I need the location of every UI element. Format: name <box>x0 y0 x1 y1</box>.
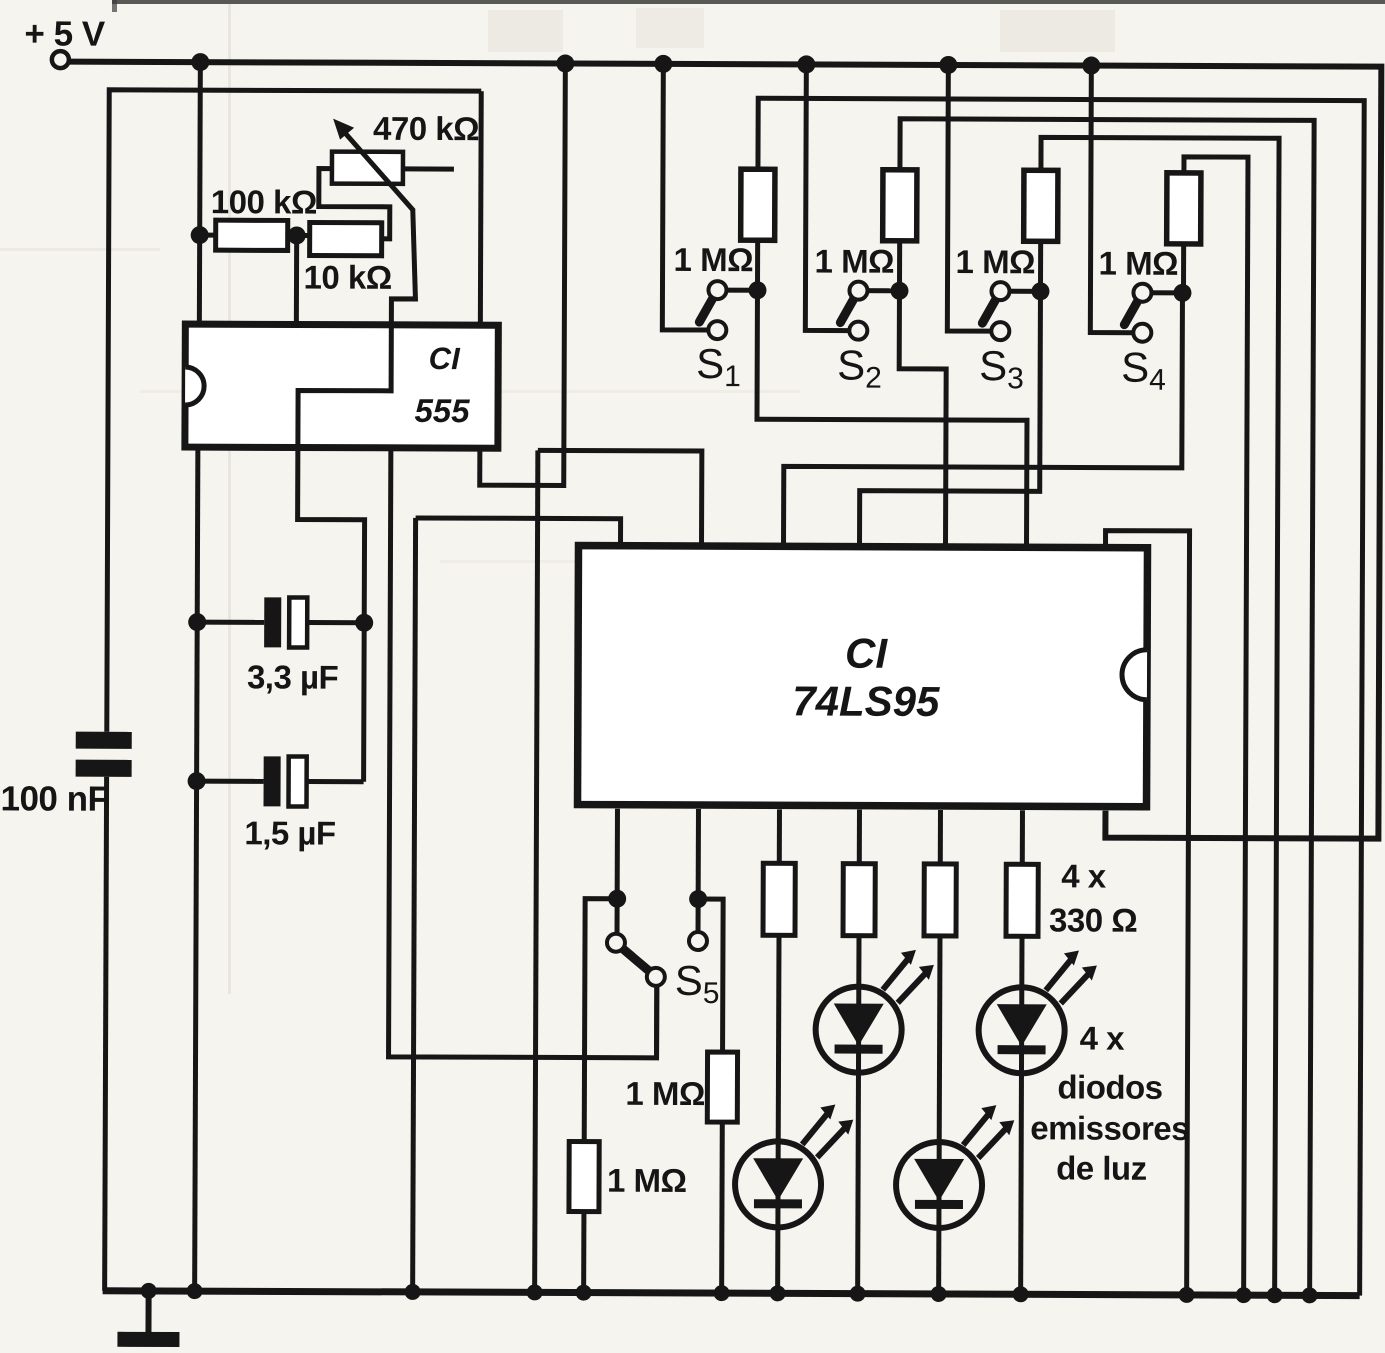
node top rail / S2 feed <box>797 55 815 73</box>
svg-text:555: 555 <box>414 392 470 429</box>
node rail U2 gnd step <box>1179 1287 1195 1303</box>
svg-text:4 x: 4 x <box>1080 1019 1126 1056</box>
svg-text:emissores: emissores <box>1030 1109 1189 1147</box>
switch S3 bottom contact <box>991 322 1009 340</box>
wire x537 riser down to ground rail <box>535 450 538 1292</box>
svg-text:1 MΩ: 1 MΩ <box>1099 245 1179 282</box>
node rail ground stub <box>141 1283 157 1299</box>
resistor R1M-4 (S4) <box>1167 173 1201 244</box>
wire S4 contact to node <box>1142 290 1182 295</box>
wire R1M left bottom lead to rail <box>581 1212 586 1293</box>
wire R100k left lead <box>200 233 217 238</box>
terminal +5V <box>52 51 69 68</box>
wire U2 pin down to S5 right contact <box>695 809 701 941</box>
wire S1 node to U2 input A <box>756 290 1027 547</box>
wire H1 from x537 riser to U2 top pin 2 <box>538 450 702 546</box>
svg-text:100 kΩ: 100 kΩ <box>211 183 317 220</box>
switch S5 moving contact <box>647 968 665 986</box>
capacitor C 100nF plate 2 <box>76 760 132 777</box>
wire C 3,3uF left lead <box>197 620 264 625</box>
svg-text:1 MΩ: 1 MΩ <box>815 242 895 279</box>
switch S2 top contact <box>849 282 867 300</box>
potentiometer P 470k wiper diagonal <box>342 130 414 211</box>
node rail R1M left <box>576 1285 592 1301</box>
boxes <box>184 324 1149 807</box>
switch S4 top contact <box>1133 284 1151 302</box>
node rail LED3 <box>931 1286 947 1302</box>
resistor R330-2 <box>843 864 875 936</box>
node rail line B <box>1302 1287 1318 1303</box>
node R100k/R10k junction <box>288 226 306 244</box>
node rail LED1 <box>770 1285 786 1301</box>
wire S5 left node bracket to R 1M left <box>584 899 617 1142</box>
node S4 switch/resistor <box>1173 284 1191 302</box>
wire S5 moving contact lead <box>654 977 659 1058</box>
svg-text:4 x: 4 x <box>1061 857 1107 894</box>
node S3 switch/resistor <box>1031 282 1049 300</box>
resistor R 100k <box>216 220 288 250</box>
wire R1M-1 bottom lead <box>755 240 760 290</box>
node top rail / 555 VCC <box>556 54 574 72</box>
node rail line C <box>1267 1287 1283 1303</box>
resistor R1M-5 (S5 left) <box>569 1142 599 1212</box>
resistor R330-4 <box>1006 864 1038 936</box>
wire pot wiper lower run into 555 <box>391 210 415 322</box>
switch S3 lever <box>982 298 996 323</box>
wire R1M-1 feedback line A to rail right corner <box>754 98 1365 1295</box>
wire ground-rail left riser (pin1 side of 555) with top jog <box>107 90 481 733</box>
wire ground bottom rail <box>103 1291 1360 1296</box>
svg-text:+ 5 V: + 5 V <box>24 14 106 53</box>
wire S2 node to U2 input B <box>898 291 946 547</box>
wire internal 555 route pin6-pin2 <box>298 327 391 444</box>
wire U2 output QD column through LED4 <box>1021 810 1023 1294</box>
wire R1M-2 feedback line B <box>896 119 1315 1296</box>
wire node between R 100k and R 10k down to 555 pin <box>294 235 299 324</box>
node top rail / S4 feed <box>1082 56 1100 74</box>
wire U2 pin down to S5 left contact <box>614 809 620 943</box>
wire ground symbol stub <box>145 1291 151 1334</box>
wire pot right lead <box>403 166 454 171</box>
wire C 3,3uF right lead <box>307 620 364 625</box>
resistor R1M-2 (S2) <box>883 170 917 241</box>
node top rail / S3 feed <box>939 56 957 74</box>
capacitor C 3,3uF positive plate <box>289 597 307 647</box>
node rail LED2 <box>850 1286 866 1302</box>
switch S1 lever <box>699 297 713 322</box>
node S2 switch/resistor <box>890 282 908 300</box>
switch S5 right contact <box>689 932 707 950</box>
wire R1M-3 bottom lead <box>1038 241 1043 291</box>
wire ground bus above U2 to pin 1 <box>416 518 621 546</box>
svg-text:1 MΩ: 1 MΩ <box>674 241 754 278</box>
svg-text:74LS95: 74LS95 <box>792 677 940 725</box>
svg-text:1 MΩ: 1 MΩ <box>607 1162 687 1199</box>
svg-text:1 MΩ: 1 MΩ <box>625 1075 705 1112</box>
wire 555 output pin3 down and right to S5 moving contact <box>389 451 659 1058</box>
capacitor C 3,3uF negative plate <box>264 597 281 647</box>
node rail R1M right <box>714 1285 730 1301</box>
switch S1 top contact <box>708 281 726 299</box>
IC U1 555 timer box <box>185 324 498 448</box>
resistor R 10k <box>310 223 382 256</box>
wire S2 feed from top rail <box>805 64 850 330</box>
node C1,5uF left <box>188 772 206 790</box>
resistor R1M-1 (S1) <box>741 169 775 240</box>
resistor R1M-3 (S3) <box>1024 170 1058 241</box>
LED D2 <box>815 949 933 1072</box>
svg-text:diodos: diodos <box>1057 1068 1162 1105</box>
capacitor C 1,5uF positive plate <box>288 756 306 806</box>
potentiometer P 470k body <box>332 152 403 184</box>
node S5 left <box>608 890 626 908</box>
potentiometer P 470k wiper arrowhead <box>333 119 354 140</box>
switch S2 lever <box>840 298 854 323</box>
svg-text:100 nF: 100 nF <box>0 779 108 818</box>
node S1 switch/resistor <box>748 281 766 299</box>
wire R10k left lead <box>297 233 310 238</box>
node R100k left <box>191 226 209 244</box>
wire R1M-4 bottom lead <box>1181 244 1186 293</box>
svg-text:1,5 µF: 1,5 µF <box>244 814 335 851</box>
wire S3 node to U2 input C <box>859 291 1040 548</box>
switch S4 lever <box>1124 300 1138 325</box>
node rail line D <box>1236 1287 1252 1303</box>
wire 555 VCC from top rail via x563 <box>480 63 566 485</box>
svg-text:1 MΩ: 1 MΩ <box>956 243 1036 280</box>
node top rail / S1 feed <box>654 55 672 73</box>
node C3,3uF left <box>188 613 206 631</box>
switch S1 bottom contact <box>708 321 726 339</box>
capacitor C 100nF plate 1 <box>76 732 132 749</box>
node rail LED4 <box>1013 1286 1029 1302</box>
svg-text:10 kΩ: 10 kΩ <box>303 259 391 296</box>
wire ground-rail left riser lower segment below C 100nF <box>105 777 107 1291</box>
switch S3 top contact <box>991 282 1009 300</box>
wire R1M-2 bottom lead <box>897 241 902 291</box>
wire caps column below 555 down to ground rail <box>195 447 198 1291</box>
wire +5V top rail with right-side loop to U2 pin 14 <box>66 62 1381 839</box>
wire S5 right node bracket to R 1M right <box>698 899 724 1052</box>
wire C 1,5uF right lead <box>307 779 364 784</box>
node S5 right <box>689 890 707 908</box>
svg-text:de luz: de luz <box>1056 1149 1147 1186</box>
svg-text:3,3 µF: 3,3 µF <box>247 658 338 695</box>
wire S3 contact to node <box>1000 289 1040 294</box>
svg-text:CI: CI <box>845 630 889 677</box>
wire U2 output QA column through LED1 <box>778 809 780 1293</box>
wire R100k right lead <box>287 233 297 238</box>
wire pot left lead bracket to R10k right end <box>319 169 390 239</box>
wire S4 feed from top rail <box>1090 66 1134 333</box>
wire S1 contact to node <box>717 288 757 293</box>
wire R1M right bottom lead to rail <box>719 1122 725 1293</box>
wire 555 pin to caps right column <box>297 450 365 781</box>
wire R1M-3 feedback line C <box>1037 137 1279 1295</box>
svg-text:470 kΩ: 470 kΩ <box>373 110 479 147</box>
wire S1 feed from top rail <box>662 64 709 330</box>
capacitor C 1,5uF negative plate <box>263 756 280 806</box>
wire R1M-4 feedback line D <box>1180 157 1248 1295</box>
wire C 1,5uF left lead <box>197 779 264 784</box>
LED D3 <box>896 1105 1014 1228</box>
svg-text:CI: CI <box>429 341 462 376</box>
wire U2 right ground pin step down to rail <box>1103 531 1190 1295</box>
IC U1 pin-1 notch <box>185 367 204 405</box>
LED D4 <box>978 950 1096 1073</box>
wire S2 contact to node <box>858 288 899 293</box>
node rail gnd-bus riser <box>405 1284 421 1300</box>
ground symbol bar <box>117 1332 179 1347</box>
switch S4 bottom contact <box>1133 324 1151 342</box>
node C3,3uF right <box>355 614 373 632</box>
svg-text:330 Ω: 330 Ω <box>1049 901 1137 938</box>
LED D1 <box>735 1104 853 1227</box>
switch S5 left contact <box>607 934 625 952</box>
node rail x537 riser <box>527 1284 543 1300</box>
node top rail / caps column <box>191 53 209 71</box>
IC U2 74LS95 box <box>578 546 1148 807</box>
wire main +5V branch to R 100k and caps column (upper) <box>199 62 200 324</box>
resistor R330-1 <box>763 863 795 935</box>
wire ground bus left riser down to ground rail <box>413 518 416 1292</box>
IC U2 pin-1 notch <box>1122 650 1147 700</box>
scan artifacts <box>0 0 1385 994</box>
switch S5 lever <box>624 950 649 971</box>
wire S3 feed from top rail <box>947 65 992 331</box>
wire U2 output QC column through LED3 <box>939 810 941 1294</box>
switch S2 bottom contact <box>849 322 867 340</box>
wire S4 node to U2 input D <box>783 291 1182 548</box>
node rail caps column <box>187 1283 203 1299</box>
resistor R1M-6 (S5 right) <box>707 1052 737 1122</box>
resistor R330-3 <box>924 864 956 936</box>
wire 555 pin4/8 top feed from y92 line <box>478 91 484 325</box>
wire U2 output QB column through LED2 <box>858 810 860 1294</box>
